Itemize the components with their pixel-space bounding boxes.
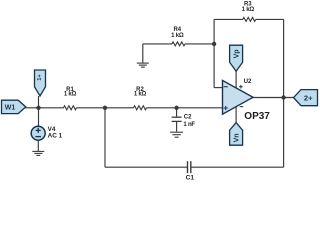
wire bottom left to C1 — [105, 166, 187, 168]
svg-text:2+: 2+ — [304, 93, 313, 102]
wire R4 to ground — [142, 44, 144, 63]
svg-text:1 kΩ: 1 kΩ — [134, 92, 147, 98]
wire node B to C2 — [176, 108, 178, 117]
wire R4 left — [143, 43, 172, 45]
capacitor C2 plates — [172, 117, 182, 121]
wire C1 to right vertical — [191, 166, 283, 168]
svg-text:AC 1: AC 1 — [48, 132, 63, 139]
svg-text:U2: U2 — [244, 78, 252, 85]
node dot B — [174, 106, 178, 110]
Vn supply tag — [230, 123, 243, 146]
svg-text:1 kΩ: 1 kΩ — [171, 33, 184, 39]
inverting input marker — [224, 86, 228, 88]
svg-text:1 nF: 1 nF — [183, 122, 195, 128]
V4 source — [31, 126, 45, 140]
op-amp U2 — [223, 80, 254, 114]
svg-text:1+: 1+ — [37, 74, 43, 81]
svg-text:Vp: Vp — [234, 49, 241, 58]
positive supply marker — [239, 86, 243, 88]
1+ tag — [35, 70, 46, 96]
svg-text:C2: C2 — [184, 115, 192, 121]
resistor R3 — [243, 17, 256, 21]
resistor R1 — [64, 106, 77, 110]
ground below R4 — [137, 63, 149, 67]
wire R1 to node A — [77, 107, 134, 109]
wire inverting vertical — [213, 19, 215, 87]
wire node1 to 1+ tag — [38, 96, 40, 108]
resistor R4 — [172, 42, 185, 46]
Vp supply tag — [230, 45, 243, 71]
svg-text:C1: C1 — [186, 174, 195, 180]
wire R2 to op-amp — [147, 107, 223, 109]
wire op-amp output — [253, 97, 294, 99]
wire C2 to ground — [176, 122, 178, 132]
negative supply marker — [240, 106, 244, 108]
wire top R3 left — [214, 18, 243, 20]
wire W1 to node A — [26, 107, 65, 109]
wire V4 to ground — [37, 140, 39, 151]
wire op-amp to Vn — [235, 104, 237, 123]
wire top R3 right — [256, 18, 284, 20]
wire to inverting input — [214, 87, 222, 89]
resistor R2 — [134, 106, 147, 110]
wire node A down — [104, 108, 106, 167]
wire right vertical — [283, 19, 285, 167]
node dot output — [281, 95, 285, 99]
capacitor C1 plates — [188, 161, 191, 173]
ground below C2 — [170, 132, 183, 137]
svg-text:W1: W1 — [5, 104, 16, 111]
2+ tag — [294, 90, 318, 106]
ground below V4 — [32, 151, 44, 155]
svg-text:OP37: OP37 — [244, 111, 270, 122]
wire node1 to V4 — [38, 108, 40, 127]
node dot R4/R3 — [212, 42, 216, 46]
node dot input — [36, 106, 40, 110]
wire Vp to op-amp — [235, 71, 237, 89]
node dot A — [103, 106, 107, 110]
wire R4 right — [185, 43, 214, 45]
non-inverting input marker — [224, 107, 228, 109]
W1 tag — [2, 100, 26, 113]
svg-text:Vn: Vn — [234, 133, 241, 142]
svg-text:1 kΩ: 1 kΩ — [242, 7, 255, 13]
svg-text:1 kΩ: 1 kΩ — [64, 92, 77, 98]
